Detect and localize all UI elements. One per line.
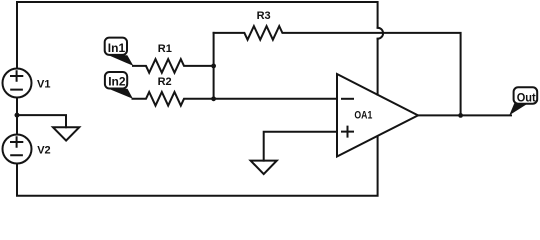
svg-text:V1: V1 bbox=[37, 79, 50, 91]
svg-text:In2: In2 bbox=[108, 74, 126, 88]
svg-text:V2: V2 bbox=[37, 145, 50, 157]
svg-text:R2: R2 bbox=[158, 76, 172, 88]
svg-text:In1: In1 bbox=[108, 41, 126, 55]
svg-text:R3: R3 bbox=[257, 10, 271, 22]
svg-text:Out: Out bbox=[517, 91, 536, 105]
svg-text:OA1: OA1 bbox=[354, 110, 372, 122]
svg-text:R1: R1 bbox=[158, 43, 172, 55]
